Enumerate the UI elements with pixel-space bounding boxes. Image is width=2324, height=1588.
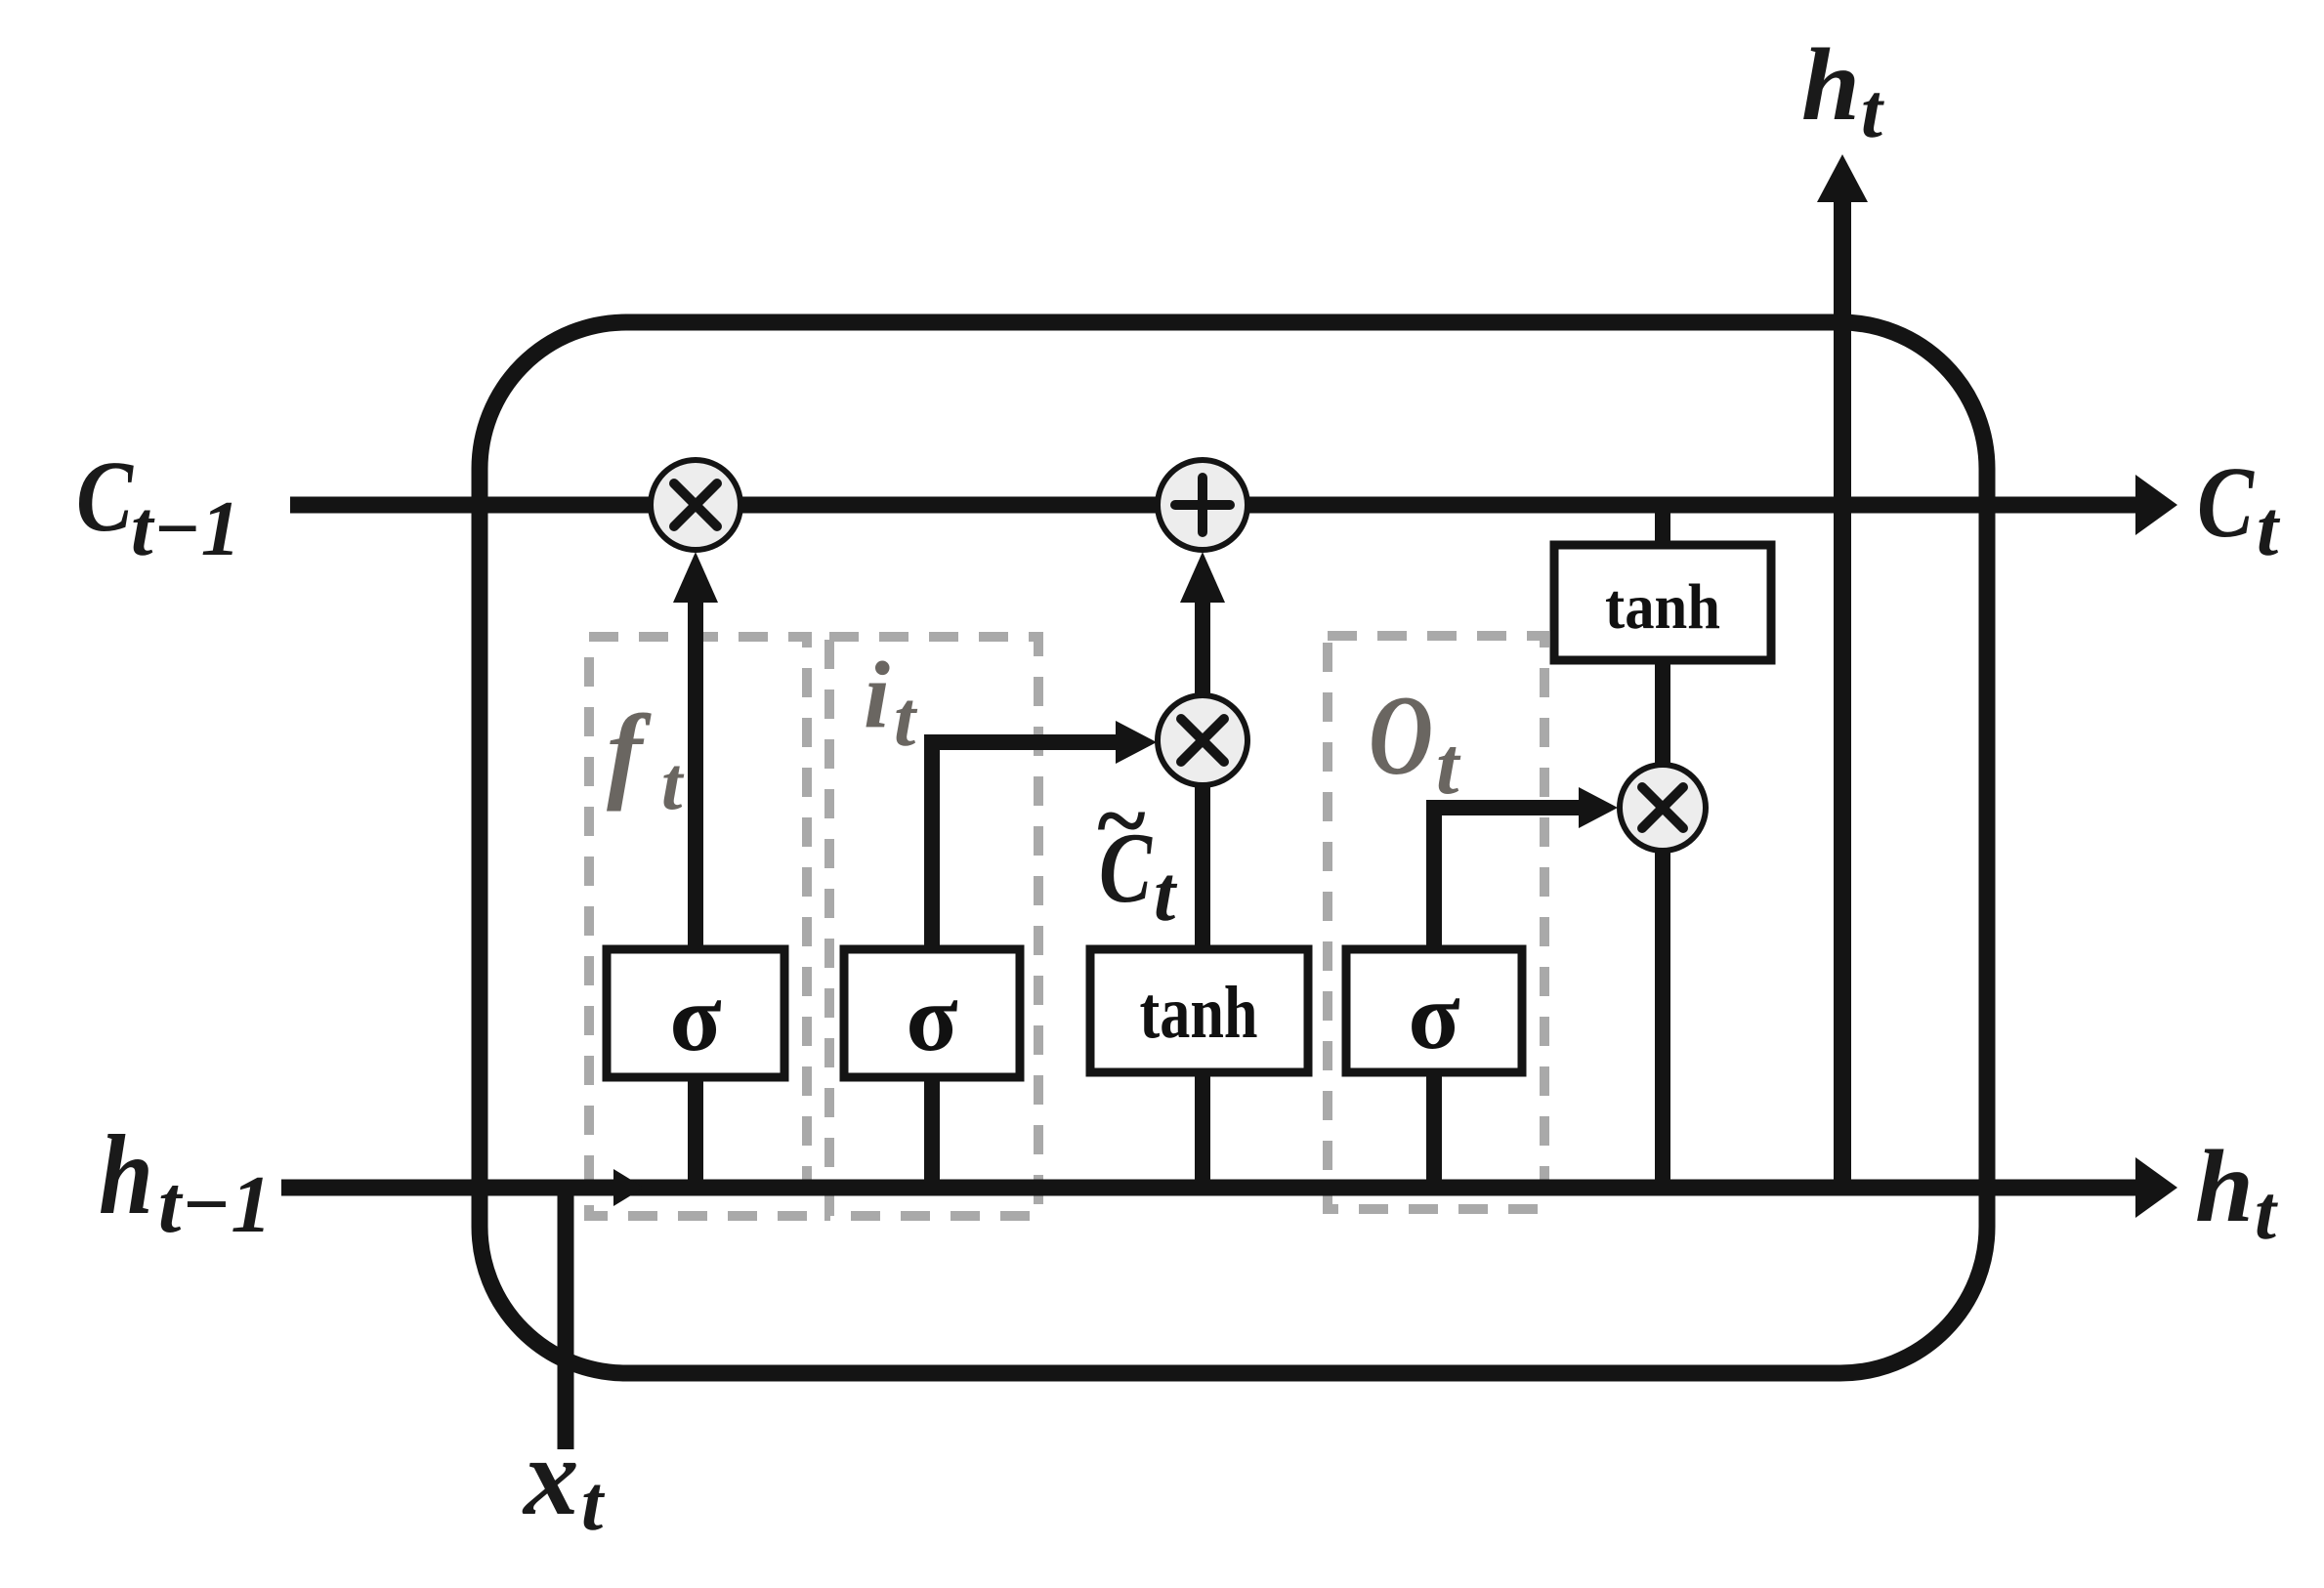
svg-text:h: h	[2195, 1129, 2254, 1243]
svg-text:C: C	[76, 440, 134, 553]
svg-text:σ: σ	[906, 966, 957, 1071]
svg-text:i: i	[864, 643, 890, 747]
svg-text:t: t	[894, 677, 918, 763]
svg-text:t: t	[2257, 486, 2281, 572]
svg-text:tanh: tanh	[1605, 571, 1720, 643]
svg-text:O: O	[1369, 673, 1433, 799]
svg-text:~: ~	[1094, 769, 1147, 872]
svg-text:C: C	[2197, 446, 2255, 559]
svg-text:t: t	[1436, 721, 1461, 812]
svg-text:σ: σ	[1408, 964, 1459, 1069]
svg-text:h: h	[1801, 27, 1860, 142]
svg-text:t: t	[1861, 69, 1884, 154]
svg-text:t: t	[1154, 852, 1178, 938]
svg-text:x: x	[522, 1416, 579, 1538]
svg-text:t−1: t−1	[131, 484, 240, 572]
svg-text:t: t	[661, 741, 685, 825]
svg-text:t: t	[2255, 1171, 2278, 1256]
svg-text:tanh: tanh	[1140, 972, 1258, 1054]
svg-text:t−1: t−1	[158, 1159, 272, 1250]
svg-text:σ: σ	[669, 966, 721, 1071]
svg-text:h: h	[99, 1112, 153, 1238]
svg-text:t: t	[581, 1461, 606, 1547]
